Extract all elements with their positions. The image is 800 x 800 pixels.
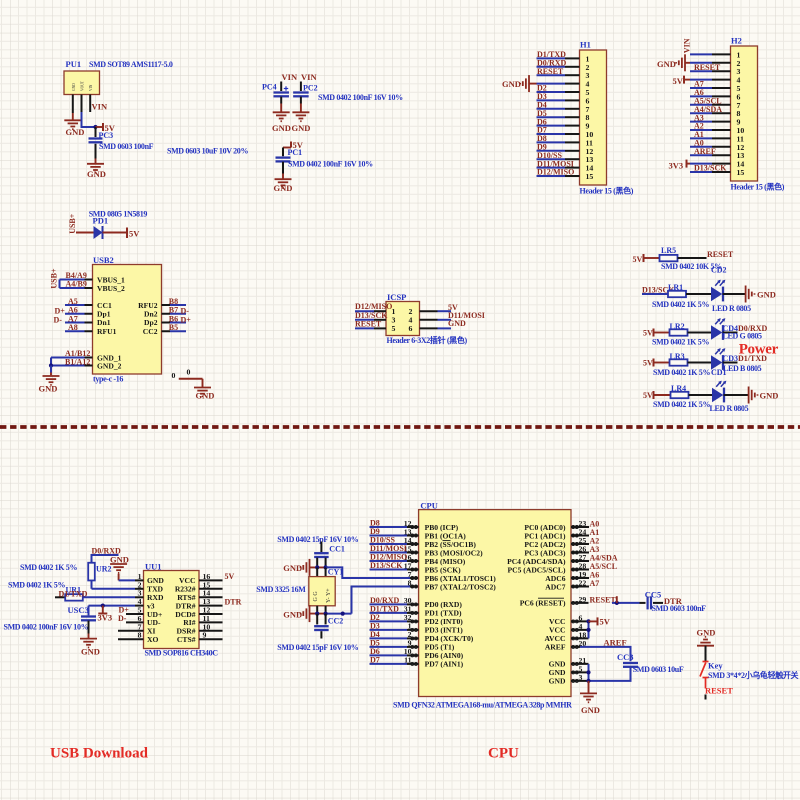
svg-text:SMD 0603 100nF: SMD 0603 100nF xyxy=(99,142,154,151)
svg-text:SMD 0402 100nF 16V 10%: SMD 0402 100nF 16V 10% xyxy=(288,160,373,169)
svg-text:B7: B7 xyxy=(169,306,178,315)
svg-text:LR2: LR2 xyxy=(670,322,685,331)
svg-text:CC2: CC2 xyxy=(143,327,158,336)
svg-text:PD1: PD1 xyxy=(93,215,109,225)
svg-text:0: 0 xyxy=(172,371,176,380)
svg-text:0: 0 xyxy=(187,368,191,377)
svg-text:GND: GND xyxy=(549,677,566,686)
svg-text:GND: GND xyxy=(72,83,76,91)
svg-text:SMD 0402 100nF 16V 10%: SMD 0402 100nF 16V 10% xyxy=(4,623,89,632)
svg-text:LED G 0805: LED G 0805 xyxy=(723,332,763,341)
svg-text:B6: B6 xyxy=(169,314,178,323)
svg-text:SMD 0402 1K 5%: SMD 0402 1K 5% xyxy=(8,580,65,589)
svg-text:Key: Key xyxy=(708,660,723,670)
svg-text:RESET: RESET xyxy=(694,63,721,72)
svg-text:H2: H2 xyxy=(731,36,742,46)
svg-text:D13/SCK: D13/SCK xyxy=(370,561,403,570)
svg-text:GND: GND xyxy=(283,563,302,573)
svg-text:5V: 5V xyxy=(643,329,653,338)
svg-text:CC3: CC3 xyxy=(617,652,634,662)
svg-text:CTS#: CTS# xyxy=(177,635,196,644)
svg-text:B5: B5 xyxy=(169,323,178,332)
svg-text:PC2: PC2 xyxy=(303,84,318,93)
svg-text:VIN: VIN xyxy=(92,102,108,112)
svg-text:RFU2: RFU2 xyxy=(138,301,158,310)
svg-text:GND: GND xyxy=(196,391,215,401)
svg-text:AREF: AREF xyxy=(545,643,566,652)
svg-text:SMD SOP816 CH340C: SMD SOP816 CH340C xyxy=(145,648,219,657)
svg-text:B8: B8 xyxy=(169,297,178,306)
svg-text:PB7 (XTAL2/TOSC2): PB7 (XTAL2/TOSC2) xyxy=(425,582,497,591)
svg-text:Header 15 (黑色): Header 15 (黑色) xyxy=(580,186,634,196)
svg-text:D+: D+ xyxy=(181,315,192,324)
svg-text:LR3: LR3 xyxy=(670,352,685,361)
svg-text:RESET: RESET xyxy=(707,250,734,259)
svg-text:SMD SOT89 AMS1117-5.0: SMD SOT89 AMS1117-5.0 xyxy=(89,60,173,69)
svg-text:ICSP: ICSP xyxy=(387,292,406,302)
svg-text:CD1: CD1 xyxy=(711,368,727,377)
svg-text:SMD 0402 1K 5%: SMD 0402 1K 5% xyxy=(653,368,710,377)
svg-text:LR1: LR1 xyxy=(668,283,683,292)
svg-text:Y- Y+: Y- Y+ xyxy=(326,588,332,603)
svg-text:15: 15 xyxy=(737,168,745,177)
svg-text:GND: GND xyxy=(757,289,776,299)
svg-text:D-: D- xyxy=(118,614,127,623)
svg-text:XO: XO xyxy=(147,635,158,644)
svg-text:5V: 5V xyxy=(600,617,611,627)
svg-text:6: 6 xyxy=(409,324,413,333)
svg-text:SMD 0402 15pF 16V 10%: SMD 0402 15pF 16V 10% xyxy=(277,535,358,544)
svg-text:GND: GND xyxy=(66,127,85,137)
svg-text:5: 5 xyxy=(392,324,396,333)
svg-text:RESET: RESET xyxy=(705,686,733,696)
svg-text:GND: GND xyxy=(448,319,466,328)
svg-text:GND: GND xyxy=(81,646,100,656)
svg-text:D13/SCK: D13/SCK xyxy=(694,164,727,173)
svg-text:type-c -16: type-c -16 xyxy=(93,375,123,384)
svg-text:A6: A6 xyxy=(68,306,78,315)
svg-text:GND_2: GND_2 xyxy=(97,361,122,370)
svg-text:GND: GND xyxy=(657,59,676,69)
svg-text:UR2: UR2 xyxy=(96,564,112,573)
svg-text:VIN: VIN xyxy=(282,72,298,82)
svg-text:GND: GND xyxy=(274,183,293,193)
svg-text:D+: D+ xyxy=(55,307,66,316)
svg-text:VIN: VIN xyxy=(89,84,93,91)
svg-text:CD3: CD3 xyxy=(723,354,739,363)
svg-text:LR5: LR5 xyxy=(661,246,676,255)
svg-text:AREF: AREF xyxy=(604,637,627,647)
svg-text:VIN: VIN xyxy=(301,72,317,82)
svg-text:5V: 5V xyxy=(673,76,684,86)
svg-text:Header 6-3X2插针 (黑色): Header 6-3X2插针 (黑色) xyxy=(387,335,468,345)
svg-text:PC1: PC1 xyxy=(288,148,303,157)
svg-text:Header 15 (黑色): Header 15 (黑色) xyxy=(731,182,785,192)
svg-text:Dn1: Dn1 xyxy=(97,318,111,327)
svg-text:A5: A5 xyxy=(68,297,78,306)
svg-text:ADC7: ADC7 xyxy=(545,582,565,591)
svg-text:Dp1: Dp1 xyxy=(97,310,111,319)
svg-text:USB Download: USB Download xyxy=(50,746,149,762)
svg-text:SMD 0402 1K 5%: SMD 0402 1K 5% xyxy=(652,338,709,347)
svg-text:PU1: PU1 xyxy=(66,59,82,69)
svg-text:GND: GND xyxy=(502,79,521,89)
svg-text:CY1: CY1 xyxy=(328,568,344,577)
svg-text:LED R 0805: LED R 0805 xyxy=(712,304,751,313)
svg-text:5V: 5V xyxy=(643,359,653,368)
svg-text:AREF: AREF xyxy=(694,147,716,156)
svg-text:SMD 3325 16M: SMD 3325 16M xyxy=(256,585,306,594)
svg-text:5V: 5V xyxy=(225,572,235,581)
svg-text:DTR: DTR xyxy=(225,597,242,606)
svg-text:SMD 0603 10uF: SMD 0603 10uF xyxy=(633,665,684,674)
svg-text:GND: GND xyxy=(283,609,302,619)
svg-text:RESET: RESET xyxy=(355,319,382,328)
svg-text:CC2: CC2 xyxy=(328,617,344,626)
svg-text:SMD 0402 1K 5%: SMD 0402 1K 5% xyxy=(652,300,709,309)
svg-text:VOUT: VOUT xyxy=(81,80,85,91)
svg-text:5V: 5V xyxy=(129,229,140,239)
svg-text:GND: GND xyxy=(87,169,106,179)
svg-text:A7: A7 xyxy=(68,314,78,323)
svg-text:CC1: CC1 xyxy=(97,301,112,310)
svg-text:RESET: RESET xyxy=(537,67,564,76)
svg-text:LED B 0805: LED B 0805 xyxy=(723,364,762,373)
svg-text:A7: A7 xyxy=(590,579,600,588)
svg-text:GND: GND xyxy=(272,123,291,133)
svg-text:3V3: 3V3 xyxy=(98,613,113,623)
svg-text:3V3: 3V3 xyxy=(669,161,684,171)
svg-text:A4/B9: A4/B9 xyxy=(66,280,87,289)
svg-text:A8: A8 xyxy=(68,323,78,332)
svg-text:5V: 5V xyxy=(643,391,653,400)
svg-text:CPU: CPU xyxy=(488,746,519,762)
svg-text:PD7 (AIN1): PD7 (AIN1) xyxy=(425,660,464,669)
svg-text:PC6 (RESET): PC6 (RESET) xyxy=(520,599,566,608)
svg-text:SMD QFN32 ATMEGA168-mu/ATMEGA: SMD QFN32 ATMEGA168-mu/ATMEGA 328p MMHR xyxy=(393,701,572,710)
svg-text:USB+: USB+ xyxy=(68,213,77,234)
svg-text:RFU1: RFU1 xyxy=(97,327,117,336)
svg-text:LR4: LR4 xyxy=(671,384,686,393)
svg-text:SMD 0402 100nF 16V 10%: SMD 0402 100nF 16V 10% xyxy=(318,93,403,102)
svg-text:5V: 5V xyxy=(633,255,643,264)
svg-text:Dp2: Dp2 xyxy=(144,318,158,327)
svg-text:GND: GND xyxy=(39,384,58,394)
svg-text:DTR: DTR xyxy=(664,596,683,606)
svg-text:SMD 0603 10uF 10V 20%: SMD 0603 10uF 10V 20% xyxy=(167,147,248,156)
svg-text:PC4: PC4 xyxy=(262,83,277,92)
svg-text:GND: GND xyxy=(581,705,600,715)
svg-text:LED R 0805: LED R 0805 xyxy=(710,404,749,413)
svg-text:CC1: CC1 xyxy=(329,544,345,553)
svg-text:GND: GND xyxy=(760,390,779,400)
svg-text:SMD 0402 15pF 16V 10%: SMD 0402 15pF 16V 10% xyxy=(277,643,358,652)
svg-text:D-: D- xyxy=(181,307,190,316)
svg-text:USB+: USB+ xyxy=(50,268,59,289)
svg-text:SMD 3*4*2小乌龟轻触开关: SMD 3*4*2小乌龟轻触开关 xyxy=(708,670,799,680)
svg-text:Dn2: Dn2 xyxy=(144,310,158,319)
svg-text:SMD 0402 1K 5%: SMD 0402 1K 5% xyxy=(653,400,710,409)
svg-text:VBUS_2: VBUS_2 xyxy=(97,284,125,293)
svg-text:USB2: USB2 xyxy=(93,255,114,265)
svg-text:D-: D- xyxy=(54,315,63,324)
svg-text:H1: H1 xyxy=(580,40,591,50)
svg-text:G G: G G xyxy=(313,591,319,602)
svg-text:VIN: VIN xyxy=(683,38,692,53)
svg-text:D12/MISO: D12/MISO xyxy=(537,168,574,177)
svg-text:D1/TXD: D1/TXD xyxy=(738,354,767,363)
svg-text:USC3: USC3 xyxy=(68,605,89,615)
svg-text:15: 15 xyxy=(586,172,594,181)
svg-text:CPU: CPU xyxy=(420,500,437,510)
svg-text:GND: GND xyxy=(292,123,311,133)
svg-text:D7: D7 xyxy=(370,656,380,665)
svg-text:CD2: CD2 xyxy=(711,266,727,275)
svg-text:SMD 0402 1K 5%: SMD 0402 1K 5% xyxy=(20,563,77,572)
svg-text:B1/A12: B1/A12 xyxy=(65,357,90,366)
